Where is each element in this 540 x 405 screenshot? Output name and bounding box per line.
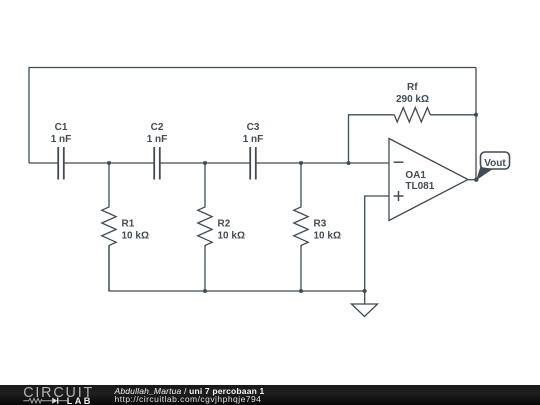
svg-text:10 kΩ: 10 kΩ bbox=[314, 231, 341, 242]
wire feedback right bbox=[430, 114, 476, 116]
wire feedback left bbox=[349, 115, 395, 163]
capacitor C1 bbox=[58, 147, 64, 180]
wire right vertical (output to top rail) bbox=[475, 68, 477, 180]
resistor R2 bbox=[198, 163, 212, 291]
resistor R3 bbox=[294, 163, 308, 291]
wire main rail segment 2 (C1 to C2) bbox=[64, 162, 154, 164]
svg-text:Vout: Vout bbox=[484, 158, 506, 169]
node feedback-inverting junction bbox=[347, 161, 351, 165]
wire main rail segment 3 (C2 to C3) bbox=[160, 162, 250, 164]
Vout flag bbox=[476, 152, 509, 180]
svg-text:290 kΩ: 290 kΩ bbox=[396, 94, 429, 105]
svg-text:10 kΩ: 10 kΩ bbox=[218, 231, 245, 242]
CircuitLab logo bbox=[0, 385, 110, 405]
node R2 bottom junction bbox=[203, 289, 207, 293]
wire bottom rail bbox=[109, 246, 365, 292]
svg-text:R3: R3 bbox=[314, 218, 327, 229]
footer bar bbox=[0, 385, 540, 405]
wire non-inverting input bbox=[365, 196, 389, 291]
op-amp OA1 bbox=[389, 139, 476, 221]
svg-text:R2: R2 bbox=[218, 218, 231, 229]
node Vout output junction bbox=[474, 178, 478, 182]
node Rf-output rail junction bbox=[474, 113, 478, 117]
svg-text:10 kΩ: 10 kΩ bbox=[122, 231, 149, 242]
svg-text:C2: C2 bbox=[151, 122, 164, 133]
node ground junction bbox=[363, 289, 367, 293]
svg-text:C3: C3 bbox=[247, 122, 260, 133]
wire top rail bbox=[29, 68, 476, 164]
svg-text:Rf: Rf bbox=[407, 82, 418, 93]
svg-text:1 nF: 1 nF bbox=[243, 134, 264, 145]
node C1-R1 junction bbox=[107, 161, 111, 165]
ground bbox=[352, 291, 378, 317]
node C3-R3 junction bbox=[299, 161, 303, 165]
svg-text:1 nF: 1 nF bbox=[147, 134, 168, 145]
wire main horizontal input rail segment 1 bbox=[29, 162, 58, 164]
wire main rail segment 4 (C3 to op-amp inverting input) bbox=[256, 162, 389, 164]
svg-text:OA1: OA1 bbox=[405, 170, 426, 181]
capacitor C3 bbox=[250, 147, 256, 180]
svg-text:TL081: TL081 bbox=[405, 181, 434, 192]
svg-text:1 nF: 1 nF bbox=[51, 134, 72, 145]
svg-text:C1: C1 bbox=[55, 122, 68, 133]
node C2-R2 junction bbox=[203, 161, 207, 165]
capacitor C2 bbox=[154, 147, 160, 180]
node R3 bottom junction bbox=[299, 289, 303, 293]
svg-text:R1: R1 bbox=[122, 218, 135, 229]
resistor Rf bbox=[394, 108, 430, 122]
svg-text:LAB: LAB bbox=[67, 396, 93, 405]
resistor R1 bbox=[102, 163, 116, 291]
